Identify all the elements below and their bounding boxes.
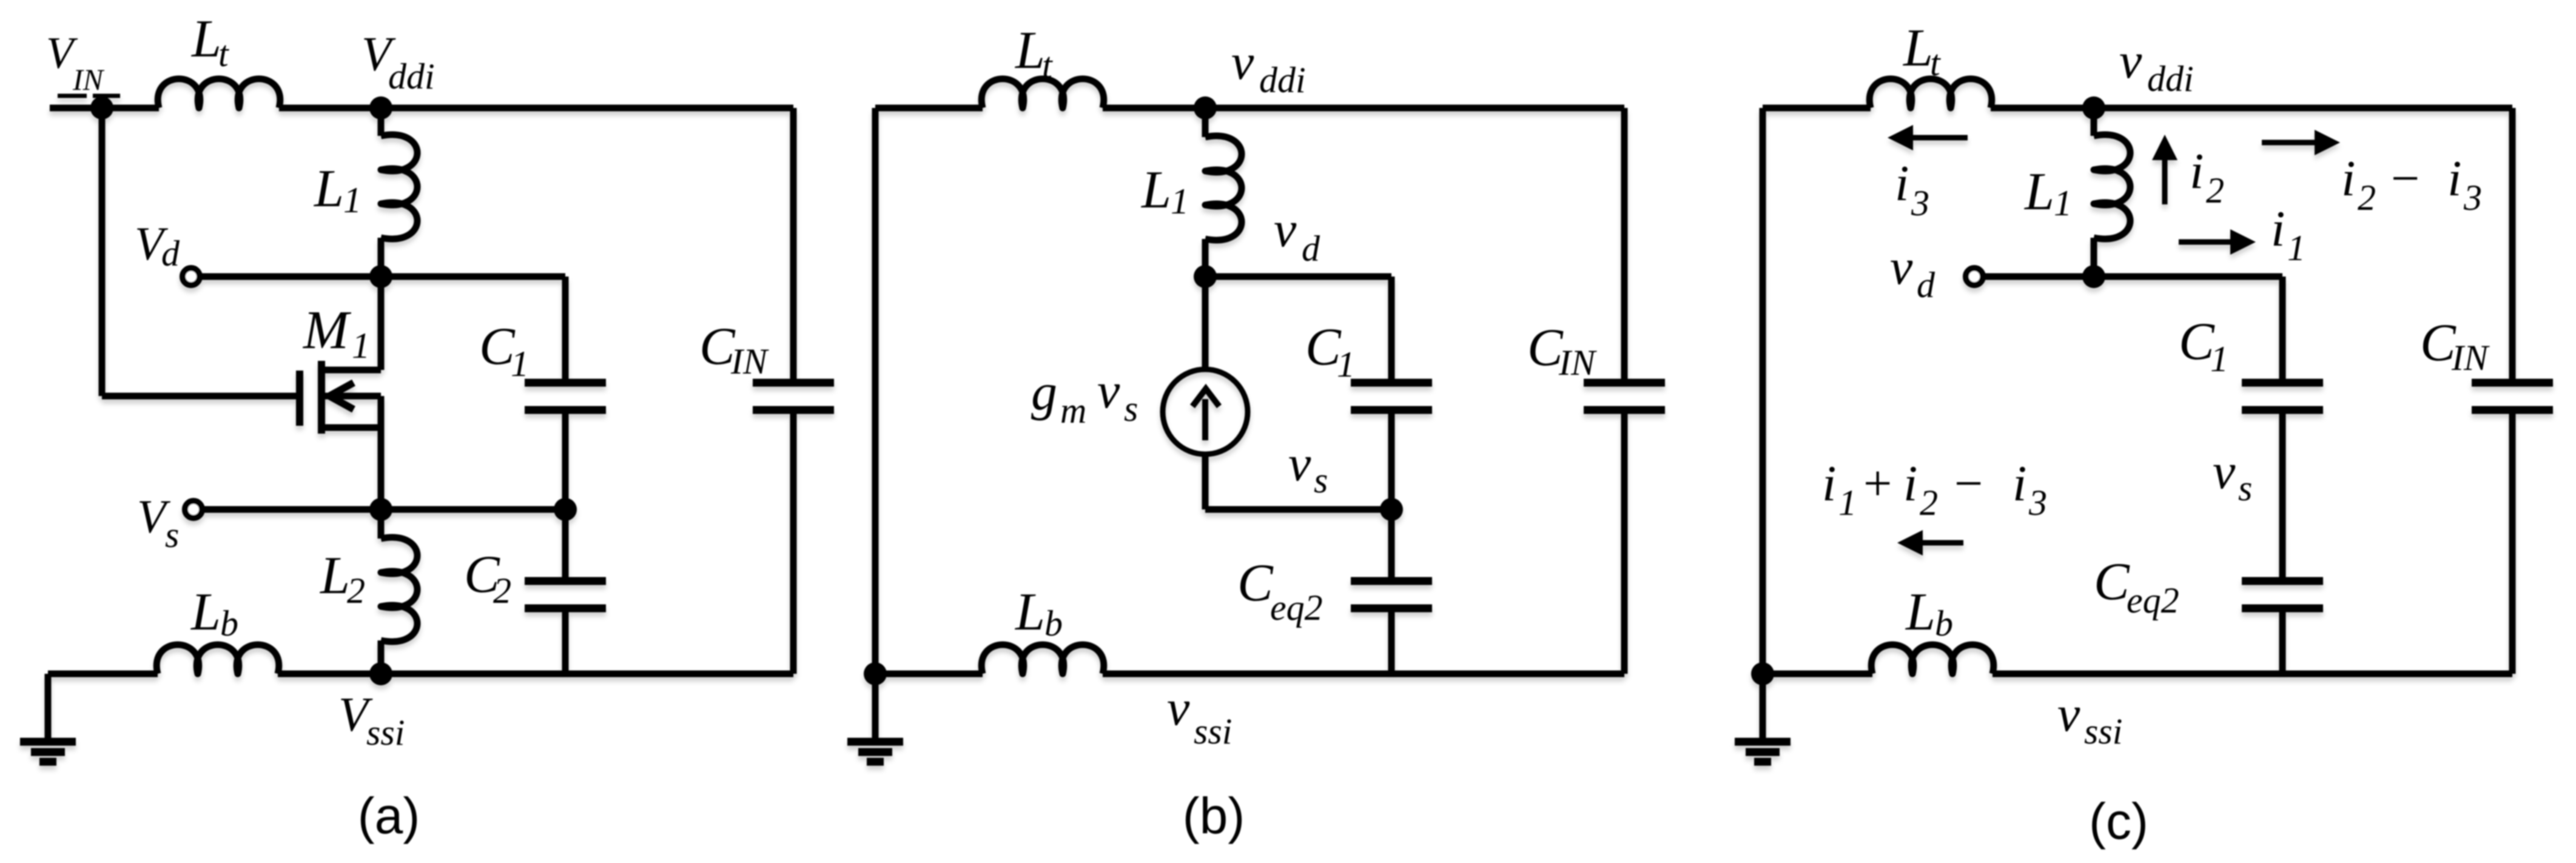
svg-text:3: 3 <box>2028 483 2047 523</box>
svg-text:L: L <box>1140 161 1171 220</box>
svg-text:s: s <box>2238 468 2252 508</box>
svg-text:t: t <box>1042 45 1053 86</box>
svg-text:v: v <box>2213 443 2236 500</box>
svg-text:i: i <box>2271 201 2285 257</box>
svg-text:b: b <box>220 603 238 643</box>
svg-text:i: i <box>1903 455 1917 512</box>
svg-text:d: d <box>1302 229 1320 269</box>
svg-text:v: v <box>2119 33 2142 89</box>
svg-text:IN: IN <box>730 341 769 381</box>
svg-text:eq2: eq2 <box>2127 580 2179 620</box>
svg-text:t: t <box>218 34 229 74</box>
svg-text:IN: IN <box>2451 338 2490 378</box>
svg-text:L: L <box>1014 21 1045 80</box>
svg-text:L: L <box>2023 163 2054 221</box>
svg-text:ddi: ddi <box>388 56 435 96</box>
svg-text:C: C <box>479 317 516 376</box>
svg-text:C: C <box>1237 554 1274 613</box>
svg-text:3: 3 <box>2463 178 2482 218</box>
svg-text:2: 2 <box>493 571 511 611</box>
svg-text:i: i <box>1822 455 1836 512</box>
svg-text:(b): (b) <box>1183 787 1245 844</box>
svg-text:C: C <box>2179 312 2215 371</box>
svg-text:L: L <box>190 583 221 642</box>
svg-text:t: t <box>1930 43 1941 83</box>
svg-text:C: C <box>1527 318 1564 377</box>
svg-text:C: C <box>699 317 736 376</box>
svg-text:ddi: ddi <box>1259 60 1306 100</box>
svg-text:L: L <box>1905 583 1935 642</box>
svg-text:(a): (a) <box>358 787 420 844</box>
svg-text:1: 1 <box>343 180 362 220</box>
svg-text:b: b <box>1044 603 1063 643</box>
svg-text:1: 1 <box>2287 228 2305 268</box>
svg-text:s: s <box>165 515 179 555</box>
svg-text:ssi: ssi <box>366 713 405 753</box>
svg-text:i: i <box>2190 143 2204 200</box>
svg-text:L: L <box>319 546 350 605</box>
svg-text:C: C <box>2094 552 2130 611</box>
svg-text:v: v <box>1274 201 1297 258</box>
svg-text:v: v <box>2057 686 2080 742</box>
svg-text:b: b <box>1935 603 1953 643</box>
svg-text:1: 1 <box>1838 483 1857 523</box>
svg-text:eq2: eq2 <box>1270 588 1323 628</box>
svg-text:s: s <box>1124 389 1138 429</box>
svg-text:3: 3 <box>1911 183 1929 223</box>
svg-text:1: 1 <box>352 326 370 366</box>
svg-text:ssi: ssi <box>2084 711 2122 751</box>
svg-text:v: v <box>1288 435 1311 492</box>
svg-text:−: − <box>2391 150 2420 207</box>
svg-text:ssi: ssi <box>1194 711 1232 751</box>
svg-text:1: 1 <box>511 344 529 384</box>
svg-text:i: i <box>2341 150 2355 207</box>
svg-text:d: d <box>1917 265 1935 305</box>
svg-text:1: 1 <box>1171 181 1189 221</box>
svg-text:−: − <box>1954 455 1983 512</box>
svg-text:v: v <box>1097 363 1120 419</box>
svg-text:+: + <box>1863 455 1892 512</box>
svg-text:2: 2 <box>1920 483 1938 523</box>
svg-text:1: 1 <box>2210 339 2228 379</box>
svg-text:d: d <box>161 233 180 274</box>
svg-text:(c): (c) <box>2089 793 2148 850</box>
svg-text:v: v <box>1167 680 1190 736</box>
svg-text:2: 2 <box>2206 170 2224 210</box>
svg-text:IN: IN <box>72 62 105 96</box>
svg-text:IN: IN <box>1558 343 1597 383</box>
svg-text:v: v <box>1231 34 1254 90</box>
svg-text:L: L <box>313 160 344 218</box>
svg-text:L: L <box>1014 583 1045 642</box>
svg-text:1: 1 <box>1337 344 1355 384</box>
svg-text:v: v <box>1890 239 1913 295</box>
svg-text:m: m <box>1060 391 1086 431</box>
svg-text:i: i <box>1895 155 1909 212</box>
svg-text:L: L <box>1902 19 1933 78</box>
svg-text:i: i <box>2447 150 2461 207</box>
svg-text:s: s <box>1314 460 1328 500</box>
svg-text:g: g <box>1031 363 1057 421</box>
svg-text:C: C <box>1305 318 1342 377</box>
svg-text:L: L <box>190 10 221 69</box>
svg-text:1: 1 <box>2054 183 2072 223</box>
svg-text:C: C <box>2420 314 2457 372</box>
svg-text:2: 2 <box>2358 178 2376 218</box>
svg-text:ddi: ddi <box>2147 59 2194 99</box>
svg-text:2: 2 <box>347 571 365 611</box>
svg-text:M: M <box>302 300 352 360</box>
svg-text:i: i <box>2013 455 2026 512</box>
